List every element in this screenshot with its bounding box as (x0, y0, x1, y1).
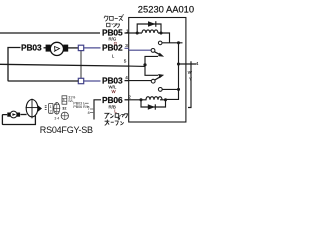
connector pin marks (45, 106, 47, 110)
svg-text:2: 2 (50, 110, 52, 114)
diode D1 branch wires (137, 24, 161, 33)
switch SW2 blade arrowhead (158, 74, 164, 78)
switch SW1 blade (155, 52, 161, 55)
wire blue to PB03 (84, 80, 101, 82)
node dot pin1 branch (136, 31, 139, 34)
connector cavity detail (49, 103, 53, 113)
wire contact E to right bus (162, 88, 178, 90)
junction dot pin4 takeoff (177, 62, 180, 65)
wire blue to PB02 (84, 47, 101, 49)
wire coil L1 node to contact bus (161, 33, 170, 43)
diode D1 (148, 21, 156, 27)
junction dot coil L2 left (139, 98, 142, 101)
svg-text:PB02: PB02 (102, 43, 123, 53)
motor M1 body (50, 42, 63, 55)
svg-text:PB06: PB06 (102, 95, 123, 105)
label オープン (open) (105, 118, 124, 126)
svg-text:3: 3 (125, 43, 128, 48)
svg-text:32: 32 (62, 106, 66, 110)
terminal table small (62, 96, 67, 104)
switch SW2 blade (155, 77, 161, 80)
contact E circle (158, 88, 162, 92)
coil L1 (lock relay coil) (129, 30, 161, 33)
motor M2 body (10, 111, 17, 118)
svg-text:3 4: 3 4 (54, 116, 59, 120)
svg-text:4: 4 (196, 61, 199, 66)
motor M1 rotor arrow (54, 47, 60, 52)
terminal face round (61, 112, 68, 119)
wire pin3 to contact B (129, 49, 152, 51)
connector square lower (78, 78, 83, 83)
actuator loop wire (2, 115, 35, 125)
wire dash PB02 to relay pin 3 (125, 47, 129, 49)
svg-text:4: 4 (125, 75, 128, 80)
wire PB06 bracket (94, 100, 101, 120)
contact D circle (151, 79, 155, 83)
motor M2 rotor arrow (12, 113, 16, 116)
wire dash PB05 to relay pin 1 (125, 32, 129, 34)
label ロック (lock) (107, 23, 120, 28)
junction dot common (143, 63, 146, 66)
svg-text:PB06 R/L: PB06 R/L (73, 105, 88, 109)
wire output drop (188, 61, 191, 107)
wire pin4 to contact D (129, 80, 152, 82)
svg-text:8: 8 (88, 111, 90, 115)
motor M1 terminal right (63, 45, 68, 52)
diode D2 (148, 104, 155, 109)
junction dot right bus mid (177, 88, 180, 91)
contact A circle (158, 41, 162, 45)
wire PB05 feed (long horizontal) (0, 32, 100, 34)
wire motor to connector (68, 47, 78, 49)
svg-text:25230 AA010: 25230 AA010 (138, 3, 194, 14)
connector square upper (78, 45, 83, 50)
wire pin5 into relay (129, 65, 145, 67)
svg-text:PB03: PB03 (21, 43, 42, 53)
coil L2 (unlock relay coil) (141, 97, 166, 100)
svg-text:RS04FGY-SB: RS04FGY-SB (40, 125, 93, 135)
wire PB03 motor stub corner (8, 48, 21, 81)
svg-text:5: 5 (124, 59, 127, 64)
svg-text:2: 2 (128, 95, 131, 100)
wire dash PB06 to relay pin 2 (125, 99, 129, 101)
contact B circle (151, 49, 155, 53)
label クローズ (close) (104, 15, 124, 22)
switch SW1 blade arrowhead (158, 53, 164, 57)
connector face detail (54, 103, 60, 115)
actuator body (ellipse) (26, 100, 38, 117)
svg-text:1: 1 (50, 105, 52, 109)
wire pin2 into relay (129, 99, 141, 101)
wire motor M2 to actuator (20, 114, 26, 116)
actuator output wedge (38, 105, 42, 112)
switch SW1 throw arm (145, 56, 158, 66)
wire PB03 left run (8, 80, 78, 83)
wire dash label to motor (44, 47, 47, 49)
actuator cross vertical (31, 99, 33, 119)
right bus vertical (166, 43, 179, 100)
switch SW2 throw arm (145, 66, 158, 75)
label アンロック (unlock) (104, 113, 127, 118)
junction dot right bus top (177, 41, 180, 44)
diode D2 branch wires (141, 100, 166, 107)
wire common feed (long horizontal) (0, 64, 129, 66)
relay box 25230 AA010 (129, 18, 186, 123)
motor M2 terminal right (17, 113, 20, 117)
junction dot coil L2 right (164, 98, 167, 101)
wire pin 4 output (179, 63, 197, 65)
harness boundary line (80, 46, 82, 84)
node dot coil L1 right (159, 31, 162, 34)
wire contact A to right bus (162, 42, 183, 44)
svg-text:8: 8 (63, 98, 65, 102)
actuator cross horizontal (26, 107, 40, 109)
motor M2 terminal left (7, 113, 10, 117)
motor M1 terminal left (46, 45, 51, 52)
wire dash PB03 to relay (125, 80, 129, 82)
